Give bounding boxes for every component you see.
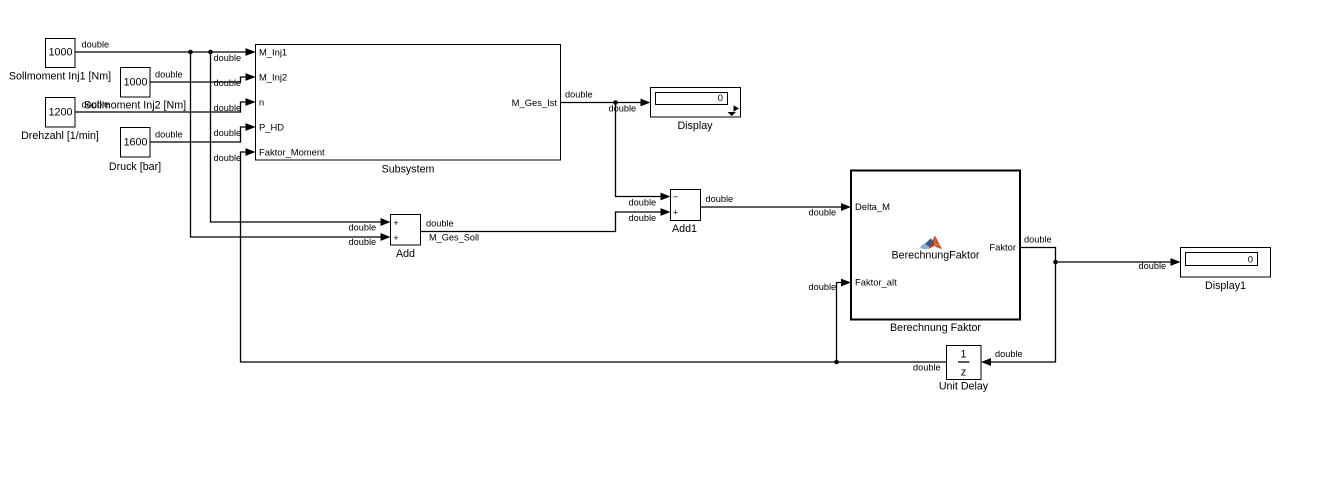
svg-text:z: z <box>961 367 966 379</box>
svg-text:M_Ges_Ist: M_Ges_Ist <box>512 97 558 108</box>
svg-text:1000: 1000 <box>49 47 73 59</box>
svg-text:1: 1 <box>961 349 967 361</box>
svg-text:double: double <box>214 78 242 88</box>
svg-text:Faktor_alt: Faktor_alt <box>855 277 897 288</box>
svg-text:Unit Delay: Unit Delay <box>939 381 989 393</box>
svg-text:P_HD: P_HD <box>259 121 284 132</box>
svg-text:BerechnungFaktor: BerechnungFaktor <box>892 250 980 262</box>
svg-text:double: double <box>349 223 377 233</box>
svg-text:−: − <box>673 191 679 202</box>
svg-text:double: double <box>155 130 183 140</box>
svg-text:double: double <box>1139 261 1167 271</box>
svg-text:0: 0 <box>718 92 723 103</box>
svg-text:Faktor_Moment: Faktor_Moment <box>259 146 325 157</box>
svg-text:Drehzahl [1/min]: Drehzahl [1/min] <box>21 130 99 142</box>
svg-text:n: n <box>259 96 264 107</box>
svg-text:Berechnung Faktor: Berechnung Faktor <box>890 322 981 334</box>
svg-text:double: double <box>1024 235 1052 245</box>
svg-text:double: double <box>214 103 242 113</box>
svg-text:double: double <box>214 153 242 163</box>
svg-text:Add1: Add1 <box>672 223 697 235</box>
svg-text:M_Inj1: M_Inj1 <box>259 46 287 57</box>
svg-text:double: double <box>565 90 593 100</box>
svg-text:+: + <box>393 232 399 243</box>
svg-text:Faktor: Faktor <box>989 242 1016 253</box>
svg-text:1000: 1000 <box>124 77 148 89</box>
svg-text:double: double <box>214 53 242 63</box>
svg-text:Druck [bar]: Druck [bar] <box>109 161 161 173</box>
svg-text:double: double <box>629 213 657 223</box>
svg-text:Display: Display <box>677 120 713 132</box>
svg-text:double: double <box>913 363 941 373</box>
svg-text:double: double <box>214 128 242 138</box>
svg-text:double: double <box>995 349 1023 359</box>
svg-text:double: double <box>349 237 377 247</box>
svg-text:double: double <box>82 100 110 110</box>
svg-text:double: double <box>629 198 657 208</box>
svg-text:double: double <box>609 104 637 114</box>
svg-text:0: 0 <box>1248 254 1253 265</box>
svg-text:1200: 1200 <box>49 107 73 119</box>
svg-text:Subsystem: Subsystem <box>382 164 435 176</box>
svg-text:double: double <box>155 70 183 80</box>
svg-text:double: double <box>809 282 837 292</box>
svg-text:M_Inj2: M_Inj2 <box>259 71 287 82</box>
svg-text:Display1: Display1 <box>1205 280 1246 292</box>
svg-text:double: double <box>426 219 454 229</box>
svg-text:+: + <box>673 207 679 218</box>
svg-text:Sollmoment Inj1 [Nm]: Sollmoment Inj1 [Nm] <box>9 71 111 83</box>
svg-text:1600: 1600 <box>124 137 148 149</box>
svg-text:M_Ges_Soll: M_Ges_Soll <box>429 233 479 243</box>
svg-text:double: double <box>809 208 837 218</box>
svg-text:double: double <box>82 40 110 50</box>
svg-text:+: + <box>393 217 399 228</box>
svg-text:Delta_M: Delta_M <box>855 201 890 212</box>
svg-text:Add: Add <box>396 248 415 260</box>
svg-text:double: double <box>706 194 734 204</box>
